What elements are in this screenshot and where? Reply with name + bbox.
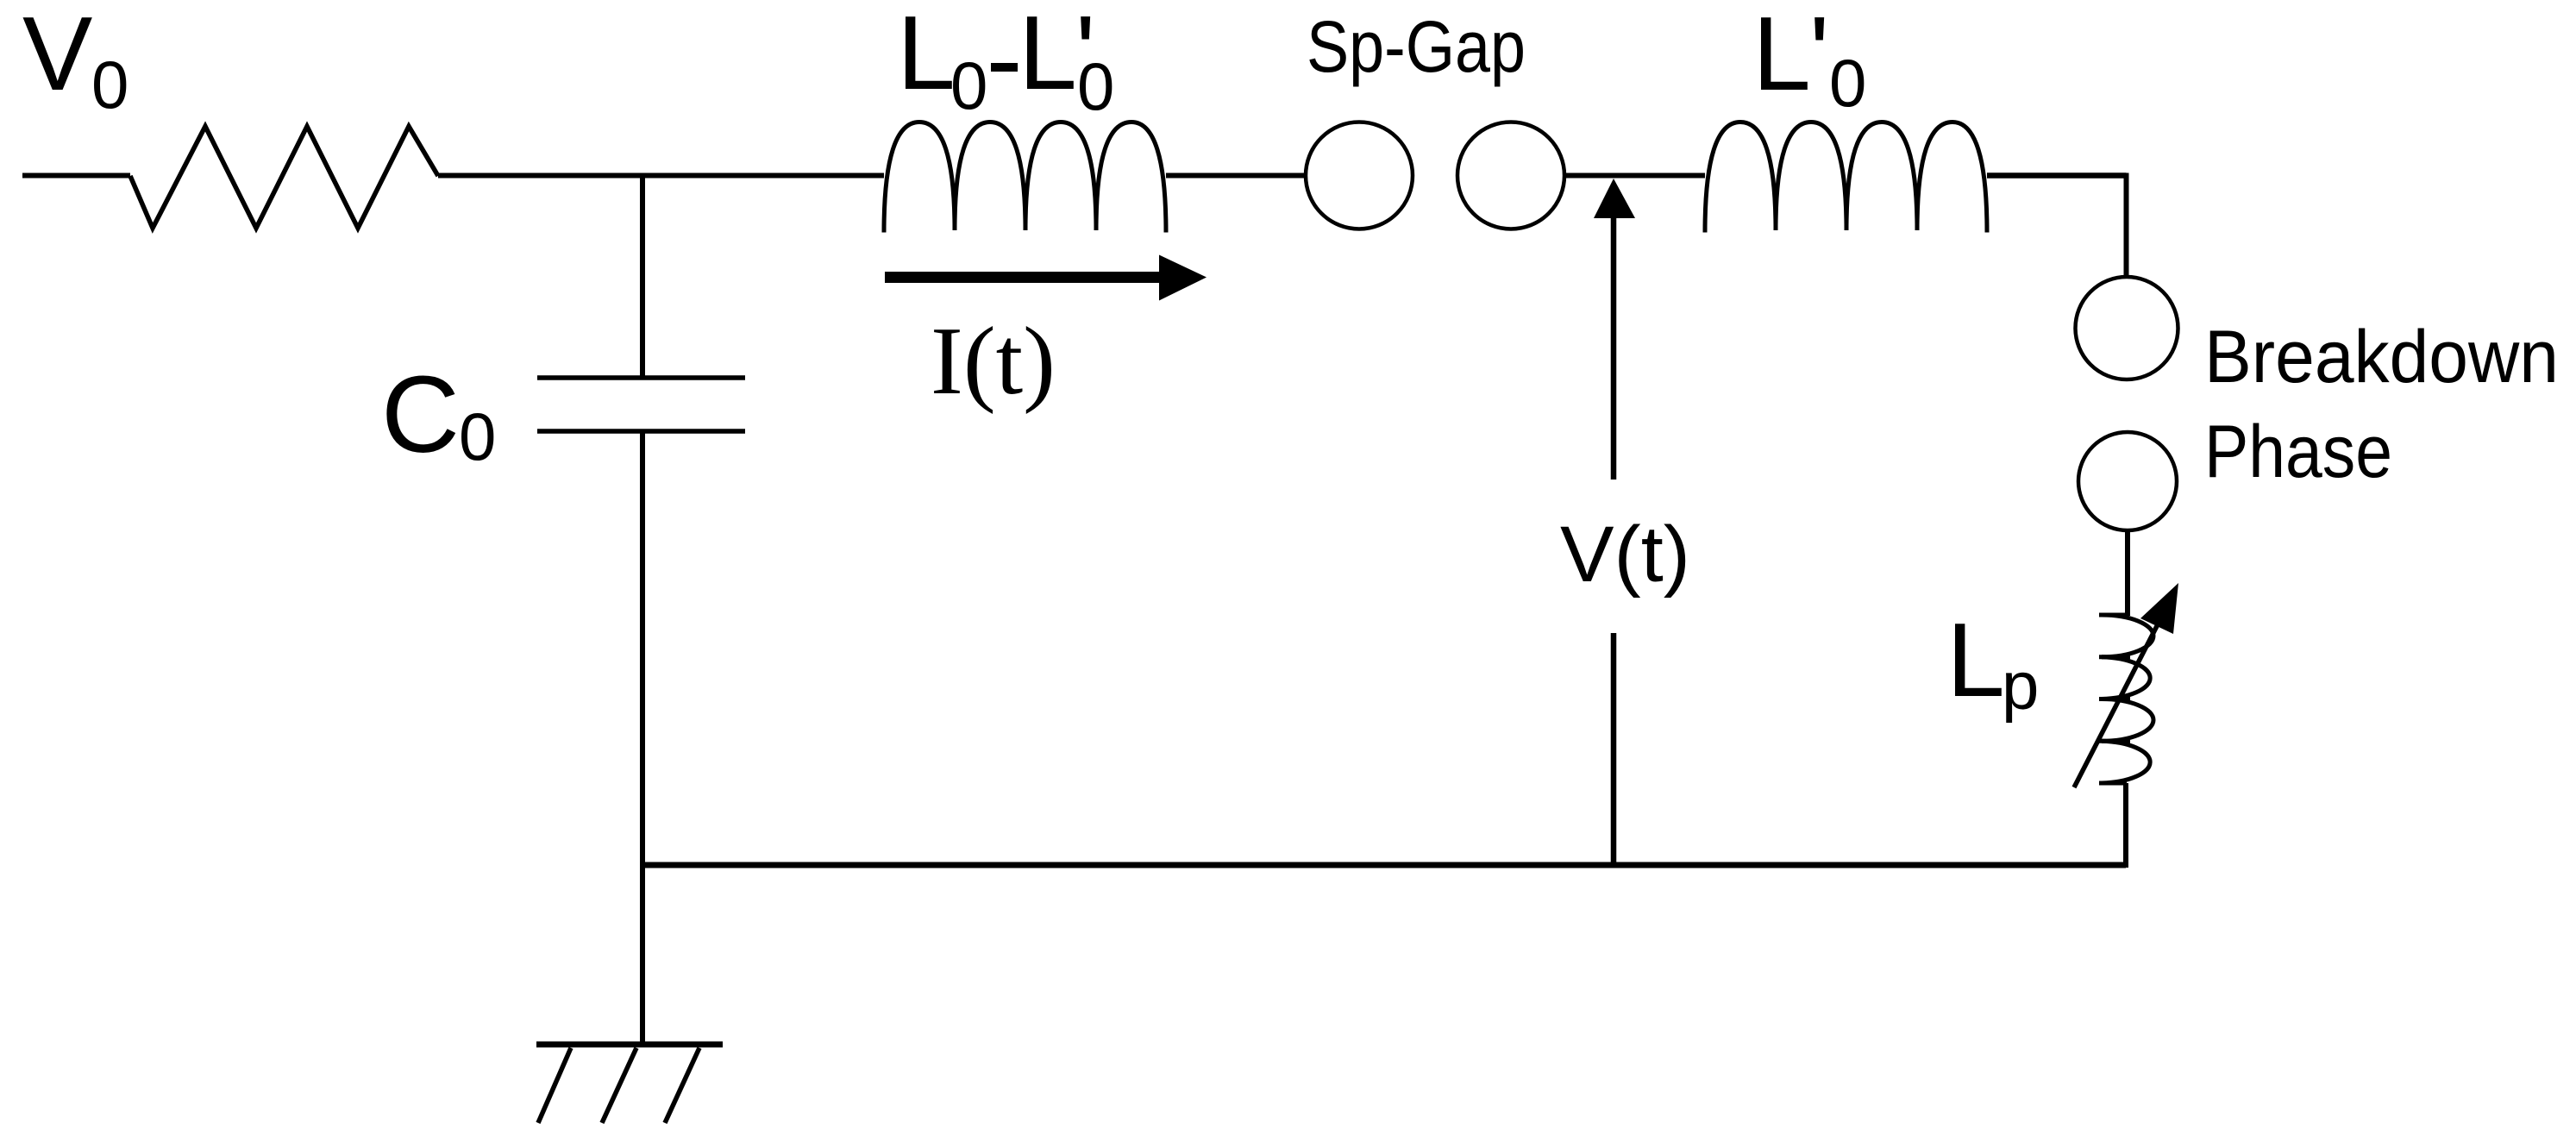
- voltage arrow V(t) upper stem: [1611, 216, 1617, 480]
- label C0: [381, 354, 496, 475]
- svg-text:0: 0: [950, 47, 987, 123]
- svg-text:L: L: [1946, 601, 2005, 718]
- label V0: [22, 0, 128, 122]
- breakdown phase electrode 1: [2076, 277, 2178, 379]
- label Lp: [1946, 601, 2039, 724]
- label L0-L'0: [897, 0, 1114, 124]
- wire L'0 to right corner: [1987, 172, 2127, 179]
- ground: [536, 1044, 723, 1123]
- svg-text:0: 0: [1829, 45, 1866, 121]
- wire electrode 2 to Lp: [2125, 532, 2130, 616]
- svg-text:p: p: [2002, 648, 2039, 724]
- resistor R (series): [130, 127, 438, 229]
- svg-text:': ': [1809, 0, 1829, 112]
- svg-text:0: 0: [91, 47, 128, 122]
- svg-text:V(t): V(t): [1560, 511, 1690, 599]
- wire rail to ground symbol: [640, 865, 645, 1044]
- wire inductor to spark gap: [1166, 173, 1305, 179]
- wire right corner down: [2124, 173, 2129, 276]
- inductor L0-L'0: [884, 122, 1166, 233]
- node junction to C0: [640, 176, 645, 379]
- spark gap electrode 2: [1457, 122, 1564, 229]
- svg-text:L: L: [1752, 0, 1811, 112]
- svg-text:Sp-Gap: Sp-Gap: [1307, 6, 1526, 87]
- bottom ground rail: [642, 862, 2126, 868]
- wire Lp to bottom rail: [2123, 783, 2128, 868]
- wire resistor to inductor (through capacitor junction): [438, 173, 884, 179]
- svg-text:Phase: Phase: [2204, 411, 2392, 493]
- variable inductor Lp coil: [2099, 615, 2153, 783]
- voltage arrow V(t) head: [1594, 179, 1635, 218]
- current arrow I(t): [885, 255, 1207, 301]
- svg-text:V: V: [22, 0, 92, 112]
- wire spark gap to L'0: [1564, 173, 1705, 179]
- breakdown phase electrode 2: [2078, 432, 2177, 530]
- wire left lead: [22, 173, 130, 179]
- capacitor C0: [537, 378, 745, 431]
- svg-text:L: L: [897, 0, 956, 111]
- variability arrow through Lp: [2074, 583, 2178, 787]
- spark gap electrode 1: [1306, 122, 1413, 229]
- svg-text:0: 0: [1077, 48, 1114, 124]
- label L'0: [1752, 0, 1866, 121]
- svg-text:0: 0: [459, 398, 496, 474]
- svg-text:L: L: [1018, 0, 1077, 111]
- svg-text:Breakdown: Breakdown: [2204, 316, 2559, 398]
- voltage arrow V(t) lower stem: [1611, 633, 1617, 865]
- wire C0 bottom to ground rail: [640, 431, 645, 865]
- svg-text:C: C: [381, 354, 460, 475]
- svg-text:I(t): I(t): [931, 308, 1056, 415]
- inductor L'0: [1705, 122, 1987, 233]
